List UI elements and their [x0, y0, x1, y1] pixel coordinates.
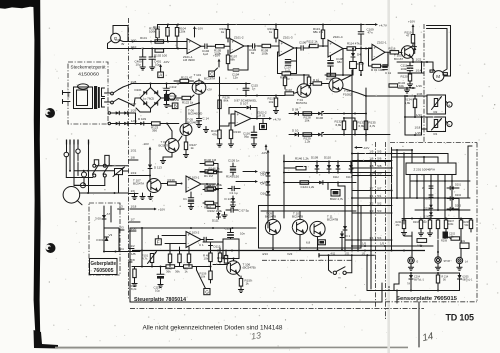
node box B	[172, 103, 178, 109]
resistor vert x285	[283, 75, 290, 89]
transistor T106	[227, 261, 256, 275]
svg-text:100k: 100k	[262, 52, 269, 56]
wire switch to node 1/17	[119, 99, 135, 107]
wire y172.5 right	[284, 172, 391, 174]
wire Z101-4 in	[322, 45, 328, 47]
zener D106	[312, 112, 324, 121]
svg-text:+4,7V: +4,7V	[273, 117, 281, 121]
svg-text:C 14: C 14	[203, 117, 210, 121]
svg-text:56μ: 56μ	[244, 134, 249, 138]
matrix contact 2b	[103, 164, 110, 177]
svg-text:1/5: 1/5	[362, 253, 366, 256]
svg-text:V3: V3	[119, 205, 123, 209]
sensor mid verticals	[410, 181, 468, 219]
resistor R128	[303, 112, 312, 123]
diode column D115	[261, 181, 271, 189]
svg-text:1k: 1k	[221, 30, 225, 34]
svg-text:+: +	[374, 46, 377, 51]
svg-text:68/TuL-1: 68/TuL-1	[414, 279, 425, 282]
resistor R146v	[218, 248, 228, 263]
svg-text:C 11: C 11	[385, 71, 391, 75]
vertical x142	[141, 228, 143, 267]
svg-text:D 08: D 08	[292, 107, 299, 111]
wire y248 pin	[129, 244, 136, 248]
resistor R123	[144, 122, 168, 133]
wire T101 collector	[199, 79, 212, 92]
wire Z101-3 out	[294, 47, 301, 49]
capacitor C106	[299, 41, 309, 51]
wire Z101-4 out	[343, 48, 347, 50]
svg-text:C120: C120	[225, 227, 233, 231]
svg-text:1/18: 1/18	[415, 126, 421, 130]
wire y262 pin	[129, 258, 136, 262]
wire y113.5 diode row	[289, 107, 320, 115]
wire T106 collector	[233, 258, 235, 261]
geber pin stubs	[103, 205, 140, 256]
capacitor C120	[225, 227, 246, 240]
svg-text:R146 1k: R146 1k	[209, 166, 221, 170]
svg-text:D109: D109	[311, 156, 319, 160]
scan border black bar left edge	[33, 0, 40, 347]
capacitor C127	[228, 186, 240, 195]
svg-text:Geberplatte: Geberplatte	[91, 261, 117, 267]
wire Z101-2 out	[244, 45, 253, 47]
wire bridge right to C113 node	[161, 93, 166, 98]
op-amp Z101-2	[230, 36, 244, 54]
sensor zener Z1	[422, 184, 433, 190]
resistor R112	[307, 40, 323, 48]
svg-text:R101: R101	[140, 36, 147, 40]
svg-text:5/8: 5/8	[377, 164, 382, 168]
svg-text:1/2: 1/2	[369, 201, 374, 205]
svg-text:BC547B: BC547B	[265, 215, 276, 219]
arrow -10V comparator	[261, 144, 267, 155]
wire bridge bottom	[136, 108, 151, 112]
wire y73 motor return	[398, 69, 424, 73]
switch contact S1a	[111, 90, 119, 95]
svg-text:C112: C112	[170, 85, 177, 89]
zener D115v	[209, 242, 221, 251]
matrix contact 1b	[103, 155, 109, 167]
matrix phase circle top2	[76, 149, 80, 176]
wire G bracket	[113, 26, 128, 42]
wire x338 down	[338, 183, 345, 187]
svg-text:D4: D4	[357, 53, 361, 57]
wire G output	[120, 40, 132, 46]
resistor R106	[220, 25, 230, 43]
shield box outer	[259, 206, 362, 249]
sensor rail y273	[399, 272, 460, 274]
wire bridge top to rail	[150, 84, 152, 88]
wire signal y49.5	[108, 41, 188, 50]
svg-text:1/8: 1/8	[131, 156, 136, 160]
label R143-150	[226, 175, 239, 179]
resistor R154	[184, 265, 197, 274]
resistor R139	[161, 178, 183, 185]
svg-text:7605005: 7605005	[94, 268, 114, 274]
svg-text:1μ2: 1μ2	[203, 52, 208, 56]
svg-text:STOP: STOP	[444, 260, 451, 263]
resistor R157	[217, 250, 229, 264]
Steuerplatte label	[134, 297, 186, 303]
svg-text:C 1: C 1	[199, 243, 204, 247]
capacitor C108	[328, 56, 344, 75]
potentiometer box b	[427, 117, 446, 136]
sensor top wires	[392, 149, 448, 158]
terminal bar 4/11	[319, 253, 366, 258]
svg-text:C 07 5μ: C 07 5μ	[239, 209, 250, 213]
svg-text:1/2: 1/2	[131, 244, 136, 248]
resistor R131	[211, 126, 222, 147]
svg-text:0.97 SCHENKEL: 0.97 SCHENKEL	[234, 98, 257, 102]
svg-text:10μ: 10μ	[155, 63, 160, 67]
svg-text:1,2k: 1,2k	[305, 140, 311, 144]
svg-text:5/3: 5/3	[377, 209, 382, 213]
wire T102 T103 couple	[179, 136, 183, 141]
transistor T101	[192, 73, 215, 94]
svg-text:R1: R1	[434, 132, 438, 136]
switch m contact right	[343, 255, 352, 274]
op-amp Z103-1	[186, 175, 201, 192]
svg-text:-10V: -10V	[163, 60, 169, 64]
wire y175 pin	[129, 171, 151, 176]
matrix phase circle mid	[82, 171, 87, 186]
diode D4 zener network	[350, 48, 365, 76]
svg-text:D111: D111	[212, 219, 219, 223]
sensor pad I	[456, 257, 468, 263]
resistor R150b	[300, 181, 315, 189]
transistor T109	[265, 211, 281, 235]
svg-text:68n: 68n	[337, 60, 342, 64]
wire rail y83.5	[131, 83, 250, 85]
matrix row y170.7	[69, 170, 115, 172]
svg-text:1k: 1k	[269, 30, 273, 34]
svg-text:D202: D202	[455, 194, 462, 197]
svg-text:1/14: 1/14	[416, 69, 422, 73]
wire y266 right of R154 up	[197, 263, 212, 268]
wire y182.5 right	[284, 182, 356, 184]
svg-text:3 001: 3 001	[96, 238, 104, 242]
resistor R126	[218, 96, 230, 109]
scan bottom edge gray line	[55, 347, 408, 348]
sensor resistor row	[396, 219, 473, 233]
matrix row y177.5	[66, 177, 93, 179]
wire y161.5 right	[283, 161, 391, 163]
matrix phase circle low	[74, 183, 86, 188]
transistor T100 parts	[169, 93, 180, 102]
resistor R101	[140, 36, 164, 43]
svg-text:D106: D106	[316, 116, 324, 120]
transformer secondary winding	[102, 88, 105, 107]
diode D113	[148, 153, 162, 177]
svg-text:+10V: +10V	[213, 54, 220, 58]
resistor R111 feedback	[278, 52, 297, 80]
svg-text:100n/50: 100n/50	[170, 99, 180, 102]
wire to T103 base	[168, 123, 179, 125]
shield box top inner wire	[261, 210, 356, 212]
sensor diode D205	[424, 205, 433, 211]
vert line x419 bottom	[418, 302, 420, 347]
svg-text:R114 47k: R114 47k	[347, 41, 360, 45]
svg-text:+10V: +10V	[408, 20, 415, 24]
pin 1/30	[131, 39, 137, 43]
op-amp Z101-3	[279, 36, 294, 57]
svg-text:8,2k: 8,2k	[131, 287, 137, 291]
wire y135	[405, 131, 422, 136]
svg-text:36k: 36k	[166, 269, 171, 273]
wire y113 diodes	[108, 109, 137, 115]
sensor box R210	[417, 239, 427, 248]
wire x218 vert	[217, 164, 219, 211]
svg-text:+: +	[330, 41, 333, 46]
sensor wire y198	[392, 197, 470, 199]
wire T105 emitter	[411, 57, 413, 63]
capacitor C109	[358, 25, 374, 49]
svg-text:47: 47	[406, 34, 410, 38]
wire x135 join	[135, 113, 137, 125]
svg-text:G: G	[205, 289, 209, 294]
sensor R214	[436, 273, 448, 291]
resistor R132	[389, 81, 406, 88]
svg-text:4150060: 4150060	[78, 72, 99, 77]
svg-text:Br: Br	[122, 42, 125, 46]
resistor R159	[236, 273, 252, 293]
capacitor C113 electrolytic	[164, 94, 177, 101]
Steckernetzgeraet dash-dot box	[68, 62, 108, 124]
wire motor top lead	[430, 62, 436, 72]
svg-text:LM 3900: LM 3900	[183, 58, 195, 62]
diode column D116	[261, 191, 271, 199]
svg-text:12n: 12n	[233, 76, 238, 80]
svg-text:5/8: 5/8	[131, 258, 136, 262]
svg-text:1/18: 1/18	[131, 205, 137, 209]
svg-text:F1082: F1082	[343, 92, 352, 96]
ground under C114	[196, 125, 208, 133]
svg-text:D16: D16	[261, 192, 267, 196]
wire y75 tie	[285, 74, 309, 76]
wire T103 collector	[186, 103, 199, 124]
svg-text:68k: 68k	[230, 58, 235, 62]
resistor R146	[208, 166, 222, 173]
svg-text:C106: C106	[299, 41, 307, 45]
svg-text:1/9: 1/9	[369, 171, 374, 175]
svg-text:390: 390	[152, 129, 157, 133]
arrow -10V T102	[143, 142, 152, 153]
resistor R121	[174, 76, 194, 83]
svg-text:Netz: Netz	[67, 91, 71, 98]
generator G	[111, 33, 121, 43]
svg-text:C1 1μ: C1 1μ	[230, 191, 238, 195]
svg-text:-10V: -10V	[261, 151, 267, 155]
rectifier bridge D101-D104	[140, 88, 161, 109]
wire motor supply y62	[397, 58, 433, 63]
svg-text:BC547A: BC547A	[296, 101, 307, 105]
arrow +10V y209	[129, 205, 166, 212]
diode row D110	[324, 156, 331, 173]
resistor R148	[207, 183, 223, 190]
sensor zener Z2	[424, 193, 433, 201]
mains plug prongs	[63, 91, 71, 104]
resistor R109	[261, 44, 279, 55]
vert wire x345	[343, 186, 347, 251]
label Steckernetzgeraet 4150060	[71, 65, 107, 77]
resistor R146b	[284, 157, 309, 170]
svg-text:+4,7V: +4,7V	[379, 23, 387, 27]
vertical x132 board left	[129, 228, 131, 302]
punch hole top	[45, 108, 55, 118]
resistor R120	[401, 74, 413, 87]
diode column D114	[261, 170, 271, 180]
transistor T105	[394, 46, 414, 61]
svg-text:56k: 56k	[223, 257, 228, 261]
svg-text:+: +	[281, 41, 284, 46]
svg-text:T 101: T 101	[194, 73, 202, 77]
capacitor C107 feedback	[284, 48, 297, 73]
arrow +10V y171.5	[243, 170, 267, 174]
wire y228 horizontal	[130, 227, 256, 229]
op-amp Z102-2	[235, 111, 267, 127]
svg-text:BC547B: BC547B	[159, 143, 170, 147]
matrix row y185.5	[74, 177, 105, 186]
wire secondary to switch	[105, 93, 111, 102]
ground cluster y195	[132, 193, 153, 200]
cross wires interconnect rows	[352, 149, 392, 213]
svg-text:120k: 120k	[179, 30, 186, 34]
capacitor C104	[228, 45, 249, 80]
resistor R118	[285, 88, 298, 95]
vert wire x352	[351, 70, 353, 251]
svg-text:BC167: BC167	[394, 57, 404, 61]
potentiometer box a	[427, 95, 446, 114]
svg-text:BGR 4,7k: BGR 4,7k	[330, 197, 344, 201]
bottom dash-dot horizontal y307	[130, 308, 424, 310]
svg-text:R208: R208	[441, 240, 448, 243]
scan border black top-left blob	[0, 0, 40, 9]
resistor R142v	[165, 244, 172, 271]
svg-text:D201: D201	[455, 183, 462, 186]
svg-text:D14: D14	[261, 173, 267, 177]
resistor R116	[389, 47, 403, 54]
sensor top verticals	[397, 146, 472, 224]
label R102	[154, 54, 167, 58]
svg-text:4,7k: 4,7k	[370, 124, 376, 128]
svg-text:100k: 100k	[448, 223, 454, 226]
svg-text:36k: 36k	[175, 270, 180, 274]
Geberplatte dash box	[89, 203, 120, 275]
wire y118 top tie	[343, 117, 355, 119]
label Sensorplatte	[396, 296, 457, 302]
vert wire x371	[370, 160, 372, 289]
wire Z103-2 inputs	[162, 236, 186, 244]
resistor R102	[155, 49, 164, 52]
svg-text:+: +	[232, 39, 235, 44]
resistor R pre-T103b	[310, 78, 329, 85]
resistor R140	[203, 158, 218, 165]
resistor R153	[166, 265, 184, 274]
svg-text:C1: C1	[183, 197, 187, 201]
svg-text:10k: 10k	[399, 84, 404, 88]
svg-text:D 113: D 113	[154, 165, 162, 169]
op-amp Z101-4	[328, 35, 343, 57]
svg-text:1/19: 1/19	[131, 171, 137, 175]
wire y242 stub	[203, 241, 223, 243]
svg-text:5/6: 5/6	[377, 156, 382, 160]
wire T106 base	[213, 264, 227, 266]
node box A	[158, 72, 164, 78]
svg-text:68k 1%: 68k 1%	[313, 30, 323, 34]
svg-text:Z 201 10046F/A: Z 201 10046F/A	[414, 167, 436, 171]
label D101	[135, 88, 143, 92]
sensor wire down x438	[437, 232, 445, 258]
TD 105 title	[446, 312, 475, 322]
svg-text:V3: V3	[120, 226, 124, 230]
wire vert x421	[421, 62, 423, 135]
pin 1/17	[131, 102, 137, 106]
svg-text:4/11: 4/11	[331, 253, 336, 256]
svg-text:-10V: -10V	[143, 142, 149, 146]
svg-text:D112: D112	[333, 176, 339, 179]
svg-text:▷I: ▷I	[465, 259, 468, 263]
capacitor C126	[228, 159, 240, 176]
resistor R100	[149, 25, 159, 42]
node box C	[209, 68, 218, 77]
svg-text:1/B: 1/B	[131, 252, 136, 256]
svg-text:5/4: 5/4	[377, 236, 382, 240]
cross wires lower rows	[345, 236, 392, 240]
wire diag to G box	[197, 267, 206, 289]
svg-text:R148 100k: R148 100k	[208, 183, 223, 187]
relay box RG	[113, 167, 125, 193]
geber vertical wires	[104, 206, 111, 252]
motor terminal box	[443, 73, 447, 75]
matrix vertical wires	[67, 145, 89, 194]
capacitor C118 electrolytic	[154, 267, 165, 293]
svg-text:Sensorplatte 7605015: Sensorplatte 7605015	[396, 296, 457, 302]
wire y172 mid	[200, 171, 208, 173]
geber diode D01	[95, 212, 111, 221]
bus pin labels	[262, 252, 293, 256]
capacitor C105	[249, 44, 262, 55]
wire switch to rectifier top	[119, 84, 132, 90]
svg-text:D 14: D 14	[225, 197, 232, 201]
svg-text:Z102-1: Z102-1	[377, 41, 387, 45]
pin 1/28	[131, 80, 137, 84]
resistor R135	[364, 114, 376, 135]
component BGR 6,8	[306, 240, 325, 245]
transformer TR primary	[74, 84, 93, 109]
wire x219 vertical	[219, 77, 221, 130]
resistor R145	[203, 184, 218, 191]
transformer core	[94, 86, 100, 109]
wire C113 to gnd	[164, 101, 169, 108]
wire y266.5 bottom rail	[132, 266, 166, 268]
resistor R150	[130, 267, 137, 291]
svg-text:R146 1,2k: R146 1,2k	[295, 157, 309, 161]
resistor R130	[228, 126, 241, 147]
big rotor circle	[63, 187, 82, 205]
resistor R114	[347, 41, 372, 50]
zener D107b	[312, 133, 324, 137]
svg-text:Alle nicht gekennzeichneten Di: Alle nicht gekennzeichneten Dioden sind …	[143, 325, 284, 332]
svg-text:C124 1,2k: C124 1,2k	[301, 185, 315, 189]
wire y231 pin	[129, 227, 137, 231]
pot P101 wire	[151, 263, 153, 267]
svg-text:6,8: 6,8	[306, 240, 311, 244]
resistor R147	[203, 201, 218, 209]
arrow +4,7V rail	[371, 23, 387, 27]
svg-text:4/13: 4/13	[262, 252, 268, 256]
svg-text:1/21: 1/21	[345, 253, 350, 256]
